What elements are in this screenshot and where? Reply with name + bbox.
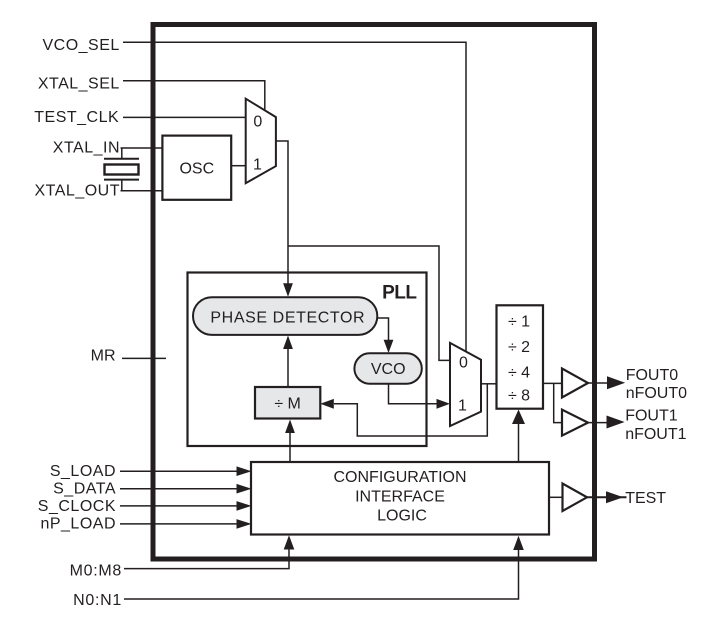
wire nP_LOAD into config logic bbox=[120, 523, 238, 525]
wire feedback from mux U2 output to divider M bbox=[334, 384, 487, 436]
svg-text:÷ 1: ÷ 1 bbox=[508, 314, 530, 331]
mux U1 (reference clock select) bbox=[246, 99, 276, 184]
crystal Y1 bbox=[104, 148, 139, 191]
svg-text:FOUT1: FOUT1 bbox=[625, 407, 678, 424]
svg-text:N0:N1: N0:N1 bbox=[73, 592, 122, 609]
svg-text:TEST: TEST bbox=[625, 490, 666, 507]
svg-text:S_DATA: S_DATA bbox=[53, 481, 116, 498]
mux U2 (VCO bypass select) bbox=[450, 343, 481, 426]
svg-text:VCO: VCO bbox=[371, 361, 406, 378]
wire XTAL_IN to OSC bbox=[121, 147, 163, 149]
svg-text:S_CLOCK: S_CLOCK bbox=[38, 498, 116, 515]
phase detector U3 bbox=[193, 297, 377, 335]
svg-text:÷ M: ÷ M bbox=[274, 395, 301, 412]
arrow to FOUT1 pins bbox=[607, 416, 625, 429]
svg-text:LOGIC: LOGIC bbox=[377, 507, 427, 524]
svg-text:VCO_SEL: VCO_SEL bbox=[42, 37, 119, 54]
wire XTAL_SEL to mux U1 select bbox=[123, 81, 265, 111]
wire buffer B3 output bbox=[587, 496, 627, 498]
svg-text:÷ 4: ÷ 4 bbox=[508, 365, 530, 382]
arrow into mux U2 input 1 bbox=[437, 399, 451, 409]
wire S_LOAD into config logic bbox=[120, 470, 238, 472]
svg-text:1: 1 bbox=[458, 397, 467, 414]
wire divider M output to phase detector bottom bbox=[287, 349, 289, 388]
svg-text:TEST_CLK: TEST_CLK bbox=[34, 109, 119, 126]
wire divider output to buffers bbox=[543, 382, 562, 384]
wire XTAL_OUT to OSC bbox=[121, 190, 163, 192]
arrow into phase detector top bbox=[283, 283, 293, 297]
VCO U4 bbox=[354, 353, 421, 383]
arrow to FOUT0 pins bbox=[607, 376, 625, 389]
svg-text:XTAL_IN: XTAL_IN bbox=[53, 139, 120, 156]
svg-text:XTAL_SEL: XTAL_SEL bbox=[38, 76, 120, 93]
arrow into divider M bottom bbox=[285, 420, 295, 434]
svg-text:PLL: PLL bbox=[382, 282, 417, 303]
wire branch to buffer B2 bbox=[554, 383, 562, 422]
arrow S_LOAD bbox=[237, 466, 252, 476]
wire config logic to TEST buffer bbox=[549, 496, 563, 498]
arrow S_CLOCK bbox=[237, 501, 252, 511]
wire phase detector to VCO bbox=[377, 318, 388, 340]
divider M U5 bbox=[255, 387, 320, 419]
output divider U6 bbox=[497, 305, 544, 408]
wire buffer B1 output bbox=[588, 382, 608, 384]
wire N0:N1 bus into config logic bbox=[124, 549, 519, 599]
arrow into output divider bottom bbox=[512, 410, 525, 425]
arrow into VCO top bbox=[384, 340, 394, 353]
arrow S_DATA bbox=[237, 484, 252, 494]
svg-text:MR: MR bbox=[91, 348, 116, 365]
wire TEST_CLK to mux U1 input 0 bbox=[123, 116, 246, 118]
svg-text:PHASE DETECTOR: PHASE DETECTOR bbox=[210, 310, 365, 327]
arrow N0:N1 into config bottom bbox=[513, 536, 524, 550]
svg-text:nP_LOAD: nP_LOAD bbox=[40, 516, 116, 533]
wire VCO output to mux U2 input 1 bbox=[389, 384, 438, 404]
svg-text:XTAL_OUT: XTAL_OUT bbox=[35, 183, 121, 200]
svg-text:÷ 8: ÷ 8 bbox=[508, 388, 530, 405]
svg-text:0: 0 bbox=[459, 354, 468, 371]
svg-text:M0:M8: M0:M8 bbox=[70, 562, 122, 579]
svg-text:nFOUT1: nFOUT1 bbox=[625, 426, 686, 443]
svg-text:FOUT0: FOUT0 bbox=[626, 367, 679, 384]
wire mux U2 output to output divider bbox=[481, 383, 497, 385]
chip outer boundary box bbox=[153, 25, 595, 560]
arrow to TEST pin bbox=[606, 491, 623, 503]
svg-text:nFOUT0: nFOUT0 bbox=[626, 385, 687, 402]
wire S_DATA into config logic bbox=[120, 488, 238, 490]
wire mux U1 output bus bbox=[276, 141, 288, 284]
svg-text:OSC: OSC bbox=[179, 161, 214, 178]
svg-text:S_LOAD: S_LOAD bbox=[50, 463, 116, 480]
buffer B1 (FOUT0) bbox=[562, 369, 588, 398]
configuration interface logic U7 bbox=[251, 462, 549, 535]
wire N value from config logic to output divider bbox=[518, 423, 520, 462]
oscillator OSC bbox=[162, 136, 231, 200]
buffer B2 (FOUT1) bbox=[562, 410, 588, 436]
wire junction to mux U2 input 0 bbox=[288, 246, 450, 360]
wire OSC output to mux U1 input 1 bbox=[231, 165, 246, 167]
arrow into phase detector bottom bbox=[283, 336, 293, 350]
svg-text:CONFIGURATION: CONFIGURATION bbox=[333, 469, 466, 486]
arrow nP_LOAD bbox=[237, 519, 252, 529]
arrow M0:M8 into config bottom bbox=[284, 535, 295, 549]
wire M0:M8 bus into config logic bbox=[124, 549, 289, 569]
PLL block boundary bbox=[188, 273, 427, 447]
wire S_CLOCK into config logic bbox=[120, 505, 238, 507]
wire buffer B2 output bbox=[588, 422, 607, 424]
arrow into divider M right side bbox=[320, 399, 334, 409]
svg-text:÷ 2: ÷ 2 bbox=[508, 339, 530, 356]
svg-text:INTERFACE: INTERFACE bbox=[355, 489, 445, 506]
svg-text:0: 0 bbox=[253, 114, 262, 131]
wire VCO_SEL to mux U2 select bbox=[123, 42, 466, 352]
svg-text:1: 1 bbox=[253, 156, 262, 173]
wire M value from config logic to divider M bbox=[289, 433, 291, 463]
wire MR stub bbox=[122, 357, 166, 359]
buffer B3 (TEST) bbox=[563, 484, 588, 512]
